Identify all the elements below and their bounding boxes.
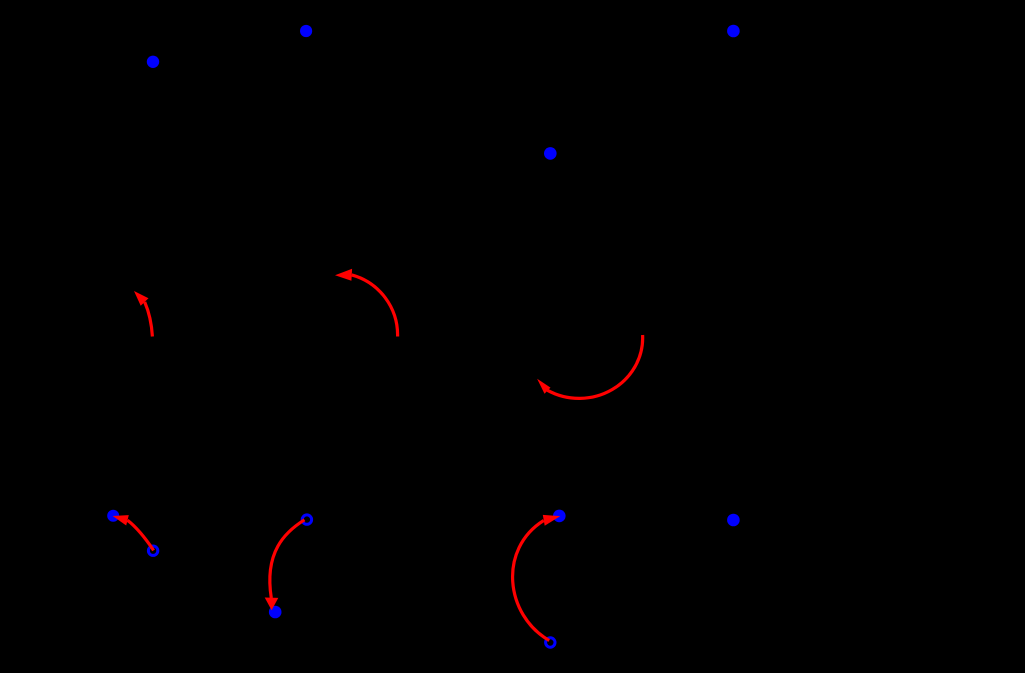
- ring R1 (electron source of arrow 1): [148, 546, 157, 555]
- node dot D5 (atom highlight, bottom-right): [727, 514, 740, 527]
- arrow 1 curve (ring R1 to dot D6): [128, 520, 154, 550]
- arrow 4 curve (big arc, clipped tail at panel edge): [548, 335, 643, 398]
- arrow 5 head: [335, 269, 352, 281]
- arrow 3 curve (ring R3 to dot D8): [513, 521, 550, 641]
- node dot D7 (arrow 2 target): [269, 606, 282, 619]
- arrow 5 curve (arc, clipped tail at panel edge): [352, 275, 398, 337]
- node dot D1 (atom highlight, top-left): [147, 56, 159, 68]
- arrow 3 head: [543, 515, 560, 526]
- arrow 1 head: [113, 515, 129, 525]
- arrow 6 head: [134, 291, 149, 306]
- node dot D3 (atom highlight, top-right): [727, 25, 740, 38]
- node dot D4 (atom highlight, middle): [544, 147, 557, 160]
- arrow 2 head: [265, 598, 279, 611]
- arrow 6 curve (small arrow, clipped tail at panel edge): [145, 302, 153, 337]
- node dot D2 (atom highlight): [300, 25, 312, 37]
- ring R3 (electron source of arrow 3): [546, 638, 555, 647]
- node dot D6 (arrow 1 target): [107, 510, 119, 522]
- arrow 2 curve (ring R2 to dot D7): [270, 520, 305, 598]
- node dot D8 (arrow 3 target): [553, 510, 566, 523]
- arrow 4 head: [537, 379, 550, 394]
- ring R2 (electron source of arrow 2): [302, 515, 311, 524]
